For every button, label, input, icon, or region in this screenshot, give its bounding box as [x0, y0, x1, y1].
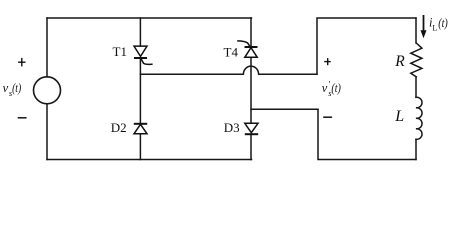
- thyristor T1: [134, 46, 153, 64]
- wire upper output stub up to load top: [317, 18, 416, 74]
- svg-text:(t): (t): [331, 81, 341, 95]
- label + (source): [18, 58, 25, 67]
- wire leg1 top (to T1 anode): [139, 18, 141, 46]
- diode D3: [245, 123, 258, 134]
- wire leg2 bottom (D3 to bottom rail): [250, 135, 252, 160]
- source vs circle: [34, 77, 61, 104]
- svg-text:T4: T4: [224, 45, 239, 60]
- thyristor T4: [237, 41, 257, 57]
- wire upper output with hop over leg2: [140, 66, 317, 74]
- svg-text:T1: T1: [113, 44, 127, 59]
- wire left vertical below source: [46, 104, 48, 160]
- wire bottom rail of bridge: [47, 159, 252, 161]
- inductor L coils: [416, 97, 422, 139]
- wire leg1 bottom (D2 to bottom rail): [139, 134, 141, 160]
- svg-text:v: v: [3, 81, 9, 95]
- label + (output): [324, 58, 331, 65]
- svg-text:L: L: [394, 108, 404, 125]
- wire left vertical above source: [46, 18, 48, 77]
- resistor R zigzag: [411, 43, 422, 77]
- arrow iL(t): [421, 15, 427, 38]
- svg-text:L: L: [432, 23, 437, 32]
- svg-text:R: R: [394, 53, 405, 70]
- svg-text:v: v: [322, 81, 328, 95]
- svg-text:(t): (t): [12, 81, 21, 95]
- wire lower output: [251, 108, 318, 110]
- diode D2: [134, 124, 147, 134]
- wire lower output stub down to load bottom: [318, 109, 416, 159]
- wire top rail of bridge: [47, 17, 252, 19]
- svg-text:D3: D3: [224, 120, 240, 135]
- label minus (output): [323, 116, 332, 118]
- wire between resistor and inductor: [415, 77, 417, 98]
- wire below inductor: [415, 139, 417, 159]
- wire leg2 middle (T4 to D3, passes under hop): [250, 57, 252, 123]
- svg-text:D2: D2: [111, 120, 127, 135]
- wire load right above resistor: [415, 18, 417, 43]
- label minus (source): [18, 117, 27, 119]
- wire leg1 middle (T1 cathode to D2): [139, 59, 141, 124]
- wire leg2 top (to T4): [250, 18, 252, 46]
- svg-text:(t): (t): [438, 16, 448, 30]
